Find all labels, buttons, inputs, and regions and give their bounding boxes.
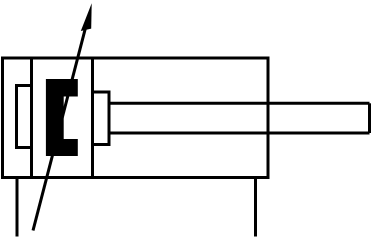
port 1 line (left) (16, 178, 19, 237)
port 2 line (right) (254, 178, 257, 237)
piston rod bottom line (109, 132, 370, 135)
right cushioning bracket (93, 92, 110, 145)
piston rod top line (109, 102, 370, 105)
adjustability arrow shaft (33, 24, 87, 231)
arrowhead (81, 3, 92, 31)
piston face plate (91, 58, 94, 178)
cylinder barrel (outer body rectangle) (3, 58, 269, 178)
piston rod end (368, 103, 371, 133)
cushioning piston (black with notch) (46, 79, 78, 156)
left end-cap divider wall (30, 58, 33, 178)
left cushioning bracket (17, 86, 32, 148)
